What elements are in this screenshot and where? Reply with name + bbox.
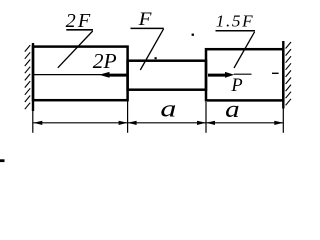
svg-text:2F: 2F — [66, 10, 93, 32]
svg-text:a: a — [225, 97, 240, 123]
svg-text:F: F — [137, 9, 152, 30]
svg-text:P: P — [230, 76, 242, 96]
svg-text:1.5F: 1.5F — [216, 12, 254, 31]
svg-text:a: a — [160, 96, 176, 122]
svg-text:2P: 2P — [93, 49, 117, 73]
